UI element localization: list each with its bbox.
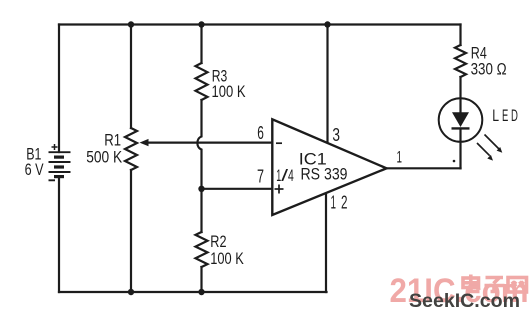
watermark chinese char dian [463, 275, 480, 292]
svg-text:3: 3 [332, 125, 340, 145]
op-amp non-inverting input plus sign [275, 185, 284, 194]
svg-text:100 K: 100 K [212, 82, 246, 101]
svg-text:R2: R2 [210, 232, 226, 251]
wire battery bottom lead [58, 177, 60, 293]
node junction top rail / pin 3 [324, 21, 330, 27]
wire op-amp output pin 1 [387, 167, 461, 169]
wire R4 to LED anode [459, 77, 461, 113]
svg-text:4: 4 [288, 166, 294, 185]
wire op-amp pin 3 to top rail [326, 25, 328, 144]
potentiometer R1 resistive element [125, 128, 137, 170]
battery minus sign [49, 179, 56, 181]
svg-text:500 K: 500 K [86, 148, 123, 167]
node junction bottom rail / R1 [128, 289, 134, 295]
svg-text:L: L [492, 107, 499, 125]
wire LED cathode to output corner [459, 129, 461, 169]
wire op-amp pin 12 to bottom rail [325, 193, 327, 293]
svg-text:1: 1 [331, 193, 337, 213]
node junction top rail / R3 [198, 21, 204, 27]
svg-text:SeekIC.com: SeekIC.com [409, 291, 520, 312]
watermark chinese char zi [485, 278, 505, 292]
svg-text:RS 339: RS 339 [301, 164, 348, 183]
resistor R4 [455, 45, 466, 77]
node junction divider midpoint / pin 7 [198, 186, 204, 192]
node speck near LED corner [453, 160, 456, 163]
svg-text:7: 7 [257, 167, 264, 187]
svg-text:6: 6 [257, 123, 264, 143]
watermark chinese char wang [508, 278, 527, 293]
op-amp U1 IC1 triangle [272, 119, 386, 215]
wire bottom rail [59, 291, 327, 293]
node junction top rail / R1 [128, 21, 134, 27]
wire R1 bottom lead [130, 170, 132, 292]
svg-text:100 K: 100 K [210, 249, 244, 268]
wire R3 top lead [200, 25, 202, 64]
wire R3 to R2 link with hop over wiper wire [197, 100, 201, 232]
svg-text:D: D [511, 107, 518, 125]
svg-text:1: 1 [397, 148, 403, 167]
wire battery top lead [58, 25, 60, 153]
LED light arrow 2 head [487, 155, 493, 161]
LED cathode bar [452, 127, 470, 129]
potentiometer R1 wiper arrow [140, 139, 149, 146]
LED circle [439, 98, 483, 142]
LED diode triangle [452, 112, 469, 127]
svg-text:6 V: 6 V [25, 160, 44, 179]
svg-text:E: E [502, 107, 508, 125]
wire divider midpoint to op-amp pin 7 [202, 188, 273, 190]
battery B1 plates [49, 152, 71, 176]
wire R1 top lead [130, 25, 132, 129]
battery plus sign [52, 144, 58, 150]
op-amp inverting input minus sign [276, 142, 282, 144]
svg-text:2: 2 [341, 193, 348, 213]
wire R4 top lead [459, 25, 461, 46]
resistor R3 [196, 63, 208, 100]
wire R2 bottom lead [200, 267, 202, 292]
resistor R2 [196, 232, 208, 267]
wire wiper to op-amp pin 6 [146, 142, 273, 144]
wire top rail [59, 23, 461, 25]
svg-text:330 Ω: 330 Ω [471, 59, 507, 78]
node junction bottom rail / R2 [198, 289, 204, 295]
LED light arrow 1 [477, 135, 499, 156]
